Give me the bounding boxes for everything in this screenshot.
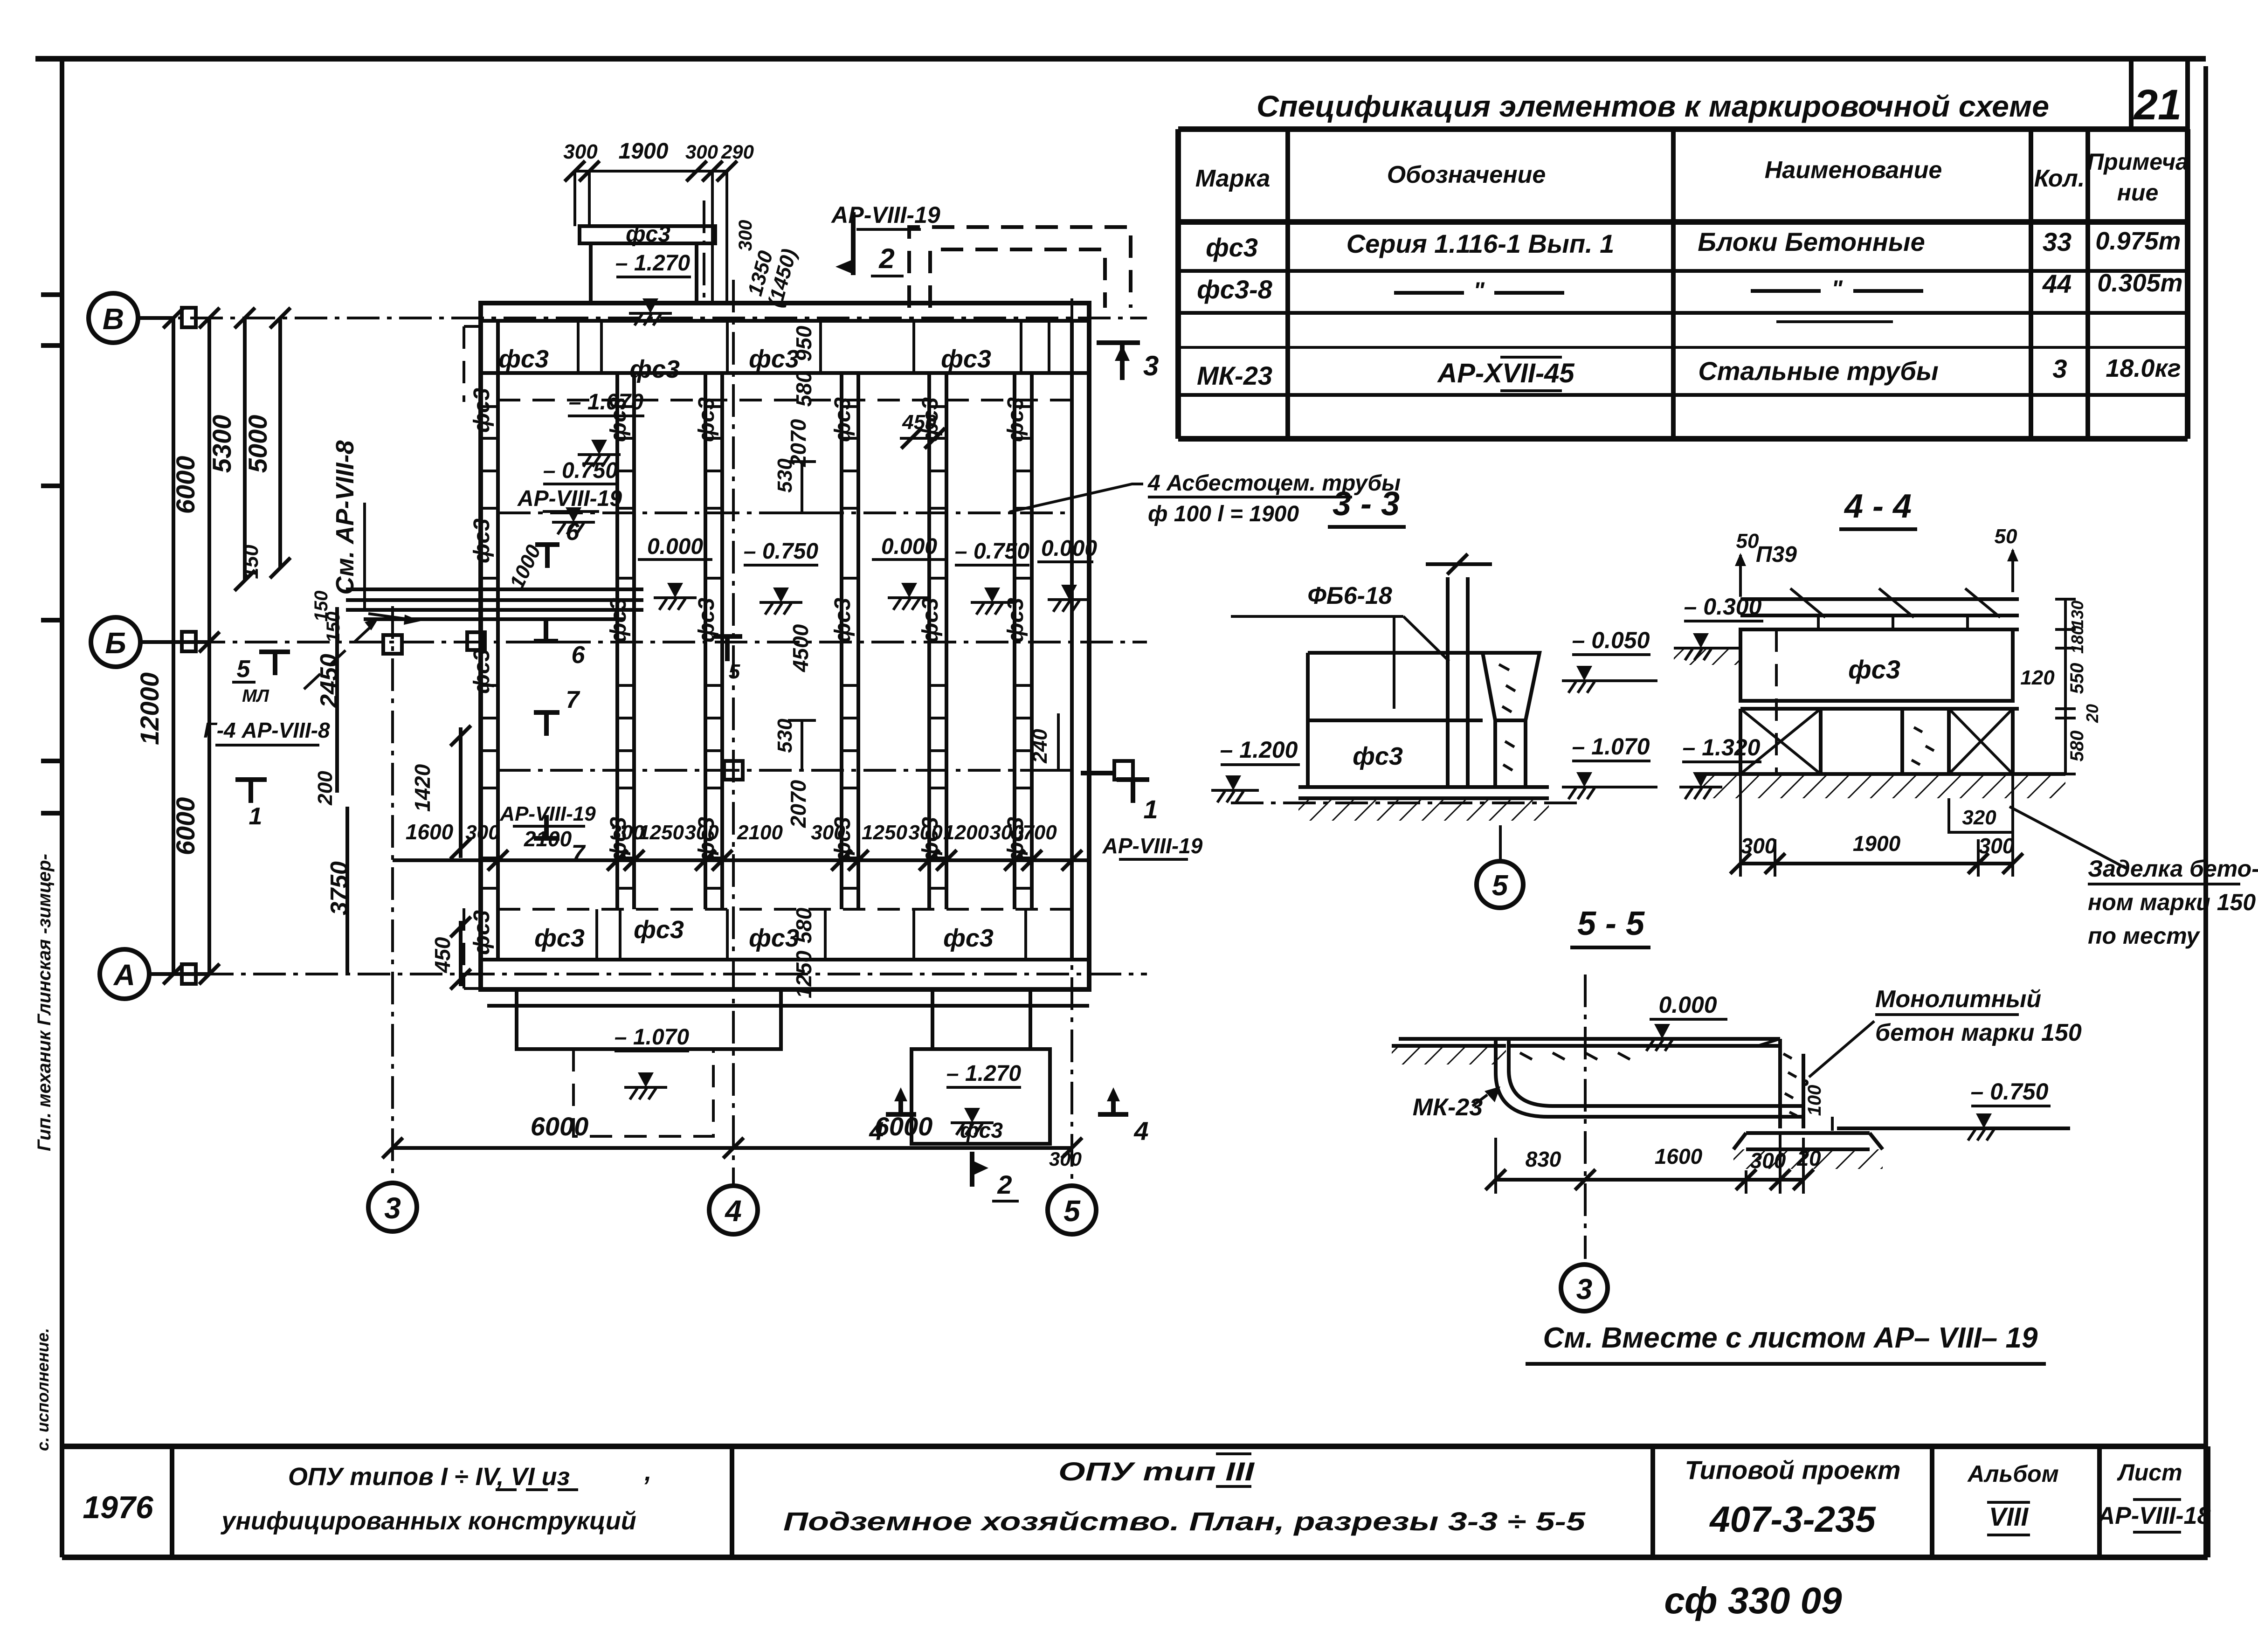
svg-text:5: 5 xyxy=(1492,870,1509,902)
svg-text:580: 580 xyxy=(792,371,816,407)
svg-text:фс3: фс3 xyxy=(1003,397,1028,442)
svg-text:фс3: фс3 xyxy=(943,924,994,952)
svg-text:4: 4 xyxy=(869,1116,884,1146)
svg-text:580: 580 xyxy=(2067,731,2087,762)
svg-text:ние: ние xyxy=(2117,180,2159,206)
svg-text:130: 130 xyxy=(2068,601,2087,629)
svg-text:150: 150 xyxy=(240,545,262,579)
svg-text:– 1.070: – 1.070 xyxy=(569,390,643,415)
svg-text:фс3: фс3 xyxy=(830,397,855,442)
svg-text:фс3: фс3 xyxy=(606,598,631,643)
svg-text:2070: 2070 xyxy=(786,780,810,828)
svg-text:1250: 1250 xyxy=(638,821,684,844)
svg-text:12000: 12000 xyxy=(135,672,164,745)
svg-text:ном марки 150: ном марки 150 xyxy=(2088,889,2256,915)
svg-text:– 0.750: – 0.750 xyxy=(1971,1078,2049,1105)
svg-text:300: 300 xyxy=(989,821,1024,844)
svg-text:– 0.300: – 0.300 xyxy=(1684,594,1762,620)
svg-text:18.0кг: 18.0кг xyxy=(2106,354,2181,382)
svg-text:АР-VIII-19: АР-VIII-19 xyxy=(499,802,596,825)
svg-text:– 1.070: – 1.070 xyxy=(615,1025,689,1050)
svg-text:3: 3 xyxy=(1576,1273,1592,1306)
svg-text:фс3: фс3 xyxy=(534,924,585,952)
svg-text:– 0.050: – 0.050 xyxy=(1572,627,1650,653)
svg-text:300: 300 xyxy=(811,821,845,844)
svg-text:20: 20 xyxy=(1796,1146,1821,1170)
svg-text:МК-23: МК-23 xyxy=(1413,1094,1483,1121)
svg-text:фс3: фс3 xyxy=(629,355,680,383)
svg-text:АР-VIII-18: АР-VIII-18 xyxy=(2097,1502,2211,1529)
svg-text:3: 3 xyxy=(1143,350,1159,381)
svg-text:240: 240 xyxy=(1029,729,1051,764)
svg-text:5: 5 xyxy=(1063,1194,1081,1228)
svg-text:300: 300 xyxy=(1979,834,2015,858)
svg-text:МЛ: МЛ xyxy=(242,686,269,706)
svg-text:1976: 1976 xyxy=(83,1490,153,1525)
svg-text:фс3: фс3 xyxy=(470,388,494,433)
svg-text:фс3: фс3 xyxy=(1353,742,1403,770)
svg-text:200: 200 xyxy=(314,771,337,806)
svg-text:3: 3 xyxy=(384,1191,401,1225)
svg-text:См. АР-VIII-8: См. АР-VIII-8 xyxy=(331,441,359,595)
svg-text:7: 7 xyxy=(572,840,586,867)
svg-text:1250: 1250 xyxy=(862,821,907,844)
svg-text:50: 50 xyxy=(1995,525,2017,548)
svg-text:по месту: по месту xyxy=(2088,923,2200,949)
svg-text:3 - 3: 3 - 3 xyxy=(1333,485,1400,523)
svg-text:180: 180 xyxy=(2068,626,2087,654)
svg-text:фс3: фс3 xyxy=(634,916,684,944)
svg-text:с. исполнение.: с. исполнение. xyxy=(33,1328,52,1451)
svg-text:– 1.200: – 1.200 xyxy=(1220,737,1298,763)
svg-text:Серия 1.116-1 Вып. 1: Серия 1.116-1 Вып. 1 xyxy=(1347,229,1615,258)
svg-text:Лист: Лист xyxy=(2117,1459,2182,1486)
svg-text:6000: 6000 xyxy=(171,797,200,856)
svg-text:6: 6 xyxy=(566,518,580,546)
svg-text:МК-23: МК-23 xyxy=(1197,361,1272,390)
svg-text:1900: 1900 xyxy=(619,139,669,164)
svg-text:2100: 2100 xyxy=(524,827,572,851)
svg-text:АР-VIII-19: АР-VIII-19 xyxy=(1102,834,1203,858)
svg-text:300: 300 xyxy=(1741,834,1777,858)
svg-text:фс3: фс3 xyxy=(626,222,670,247)
svg-text:– 1.070: – 1.070 xyxy=(1572,733,1650,760)
svg-text:фс3: фс3 xyxy=(498,345,549,373)
svg-text:фс3-8: фс3-8 xyxy=(1197,275,1272,304)
svg-text:сф 330 09: сф 330 09 xyxy=(1664,1580,1842,1621)
svg-text:фс3: фс3 xyxy=(830,598,855,643)
svg-text:120: 120 xyxy=(2020,666,2055,689)
svg-text:Спецификация элементов к ма: Спецификация элементов к маркировочной с… xyxy=(1257,90,2049,123)
svg-text:– 1.270: – 1.270 xyxy=(946,1061,1021,1086)
svg-text:бетон марки 150: бетон марки 150 xyxy=(1875,1019,2082,1046)
svg-text:Г-4 АР-VIII-8: Г-4 АР-VIII-8 xyxy=(203,718,330,742)
svg-text:АР-ХVII-45: АР-ХVII-45 xyxy=(1436,358,1574,388)
svg-text:фс3: фс3 xyxy=(470,649,494,694)
svg-text:Альбом: Альбом xyxy=(1967,1461,2058,1487)
svg-text:0.000: 0.000 xyxy=(1658,992,1717,1018)
svg-text:5 - 5: 5 - 5 xyxy=(1577,905,1645,942)
svg-text:Типовой проект: Типовой проект xyxy=(1685,1455,1900,1485)
svg-text:5300: 5300 xyxy=(207,415,236,473)
svg-text:6: 6 xyxy=(572,642,586,669)
svg-text:Стальные трубы: Стальные трубы xyxy=(1698,356,1938,386)
svg-text:ОПУ тип III: ОПУ тип III xyxy=(1058,1457,1255,1486)
svg-text:1900: 1900 xyxy=(1853,831,1901,856)
svg-text:530: 530 xyxy=(773,458,796,493)
svg-text:Примеча: Примеча xyxy=(2087,149,2189,175)
svg-text:Заделка бето-: Заделка бето- xyxy=(2088,856,2258,882)
svg-text:1: 1 xyxy=(249,803,262,830)
svg-text:2: 2 xyxy=(878,243,894,274)
svg-text:– 0.750: – 0.750 xyxy=(543,458,618,483)
svg-text:Монолитный: Монолитный xyxy=(1875,986,2041,1013)
svg-text:450: 450 xyxy=(430,937,455,973)
svg-text:фс3: фс3 xyxy=(1206,233,1258,262)
svg-text:В: В xyxy=(103,302,124,336)
svg-text:580: 580 xyxy=(792,907,816,943)
svg-text:2100: 2100 xyxy=(737,821,783,844)
svg-text:33: 33 xyxy=(2043,227,2072,256)
svg-text:300: 300 xyxy=(465,821,500,844)
svg-text:2: 2 xyxy=(997,1170,1012,1199)
svg-text:300: 300 xyxy=(908,821,943,844)
svg-text:21: 21 xyxy=(2133,81,2182,129)
svg-text:5000: 5000 xyxy=(243,415,272,473)
svg-text:Наименование: Наименование xyxy=(1765,157,1942,184)
svg-text:1: 1 xyxy=(1143,795,1158,824)
svg-text:ОПУ типов I ÷ IV, VI из: ОПУ типов I ÷ IV, VI из xyxy=(288,1463,570,1491)
svg-text:550: 550 xyxy=(2067,663,2087,694)
svg-text:1600: 1600 xyxy=(1655,1144,1703,1168)
svg-text:": " xyxy=(1831,276,1843,302)
svg-text:4: 4 xyxy=(1133,1116,1148,1146)
svg-text:VIII: VIII xyxy=(1989,1502,2029,1531)
svg-text:1250: 1250 xyxy=(792,950,816,998)
svg-text:Марка: Марка xyxy=(1195,165,1271,192)
svg-text:320: 320 xyxy=(1962,806,1996,829)
svg-text:830: 830 xyxy=(1526,1147,1561,1171)
svg-text:4500: 4500 xyxy=(788,624,813,672)
svg-text:6000: 6000 xyxy=(531,1112,589,1141)
svg-text:фс3: фс3 xyxy=(960,1118,1003,1142)
svg-text:300: 300 xyxy=(735,220,756,251)
svg-text:– 0.750: – 0.750 xyxy=(744,539,818,564)
svg-text:0.000: 0.000 xyxy=(1041,536,1097,561)
svg-text:0.000: 0.000 xyxy=(881,534,937,559)
svg-text:Кол.: Кол. xyxy=(2034,165,2085,192)
svg-text:фс3: фс3 xyxy=(694,397,719,442)
svg-text:фс3: фс3 xyxy=(918,598,943,643)
svg-text:44: 44 xyxy=(2042,269,2072,298)
svg-text:1200: 1200 xyxy=(943,821,989,844)
svg-text:П39: П39 xyxy=(1756,542,1797,567)
svg-text:Блоки Бетонные: Блоки Бетонные xyxy=(1698,227,1925,256)
svg-text:407-3-235: 407-3-235 xyxy=(1709,1499,1876,1540)
svg-text:,: , xyxy=(644,1458,651,1486)
svg-text:1420: 1420 xyxy=(410,764,435,812)
svg-text:150: 150 xyxy=(323,612,344,643)
svg-text:ФБ6-18: ФБ6-18 xyxy=(1307,582,1392,609)
svg-text:– 1.320: – 1.320 xyxy=(1683,734,1761,760)
svg-text:3: 3 xyxy=(2052,354,2067,383)
svg-text:300: 300 xyxy=(563,140,598,163)
svg-text:6000: 6000 xyxy=(171,456,200,514)
svg-text:5: 5 xyxy=(237,656,251,683)
svg-text:Гип. механик Глинская -зи: Гип. механик Глинская -зимцер- xyxy=(34,854,55,1151)
svg-text:300: 300 xyxy=(684,821,719,844)
svg-text:0.000: 0.000 xyxy=(647,534,703,559)
svg-text:фс3: фс3 xyxy=(470,518,494,563)
svg-text:100: 100 xyxy=(1804,1085,1825,1116)
svg-text:0.975т: 0.975т xyxy=(2095,227,2181,255)
svg-text:– 0.750: – 0.750 xyxy=(955,539,1029,564)
svg-text:7: 7 xyxy=(566,686,580,713)
svg-text:5: 5 xyxy=(729,660,740,683)
svg-text:фс3: фс3 xyxy=(941,345,991,373)
svg-text:1600: 1600 xyxy=(406,820,454,844)
svg-text:АР-VIII-19: АР-VIII-19 xyxy=(830,202,940,228)
svg-text:4: 4 xyxy=(724,1194,742,1228)
svg-text:530: 530 xyxy=(773,719,796,753)
svg-text:4 - 4: 4 - 4 xyxy=(1844,488,1912,525)
svg-text:унифицированных конструкций: унифицированных конструкций xyxy=(220,1507,636,1535)
svg-text:300: 300 xyxy=(685,141,718,163)
svg-text:А: А xyxy=(113,958,135,992)
svg-text:950: 950 xyxy=(792,325,816,361)
svg-text:ф 100 l = 1900: ф 100 l = 1900 xyxy=(1148,502,1299,526)
svg-text:": " xyxy=(1473,277,1485,304)
svg-text:фс3: фс3 xyxy=(470,910,494,955)
svg-text:См. Вместе с листом АР– VI: См. Вместе с листом АР– VIII– 19 xyxy=(1543,1322,2038,1354)
svg-text:20: 20 xyxy=(2083,704,2102,723)
svg-text:Подземное хозяйство. План: Подземное хозяйство. План, разрезы 3-3 ÷… xyxy=(783,1507,1586,1536)
svg-text:фс3: фс3 xyxy=(1003,598,1028,643)
svg-text:фс3: фс3 xyxy=(1848,655,1900,684)
svg-text:290: 290 xyxy=(721,141,754,163)
svg-text:Обозначение: Обозначение xyxy=(1387,161,1546,188)
svg-text:300: 300 xyxy=(1049,1148,1082,1170)
svg-text:0.305т: 0.305т xyxy=(2097,269,2182,297)
svg-text:700: 700 xyxy=(1022,821,1057,844)
svg-text:Б: Б xyxy=(105,626,126,660)
svg-text:1000: 1000 xyxy=(505,541,546,593)
svg-text:– 1.270: – 1.270 xyxy=(615,251,690,276)
